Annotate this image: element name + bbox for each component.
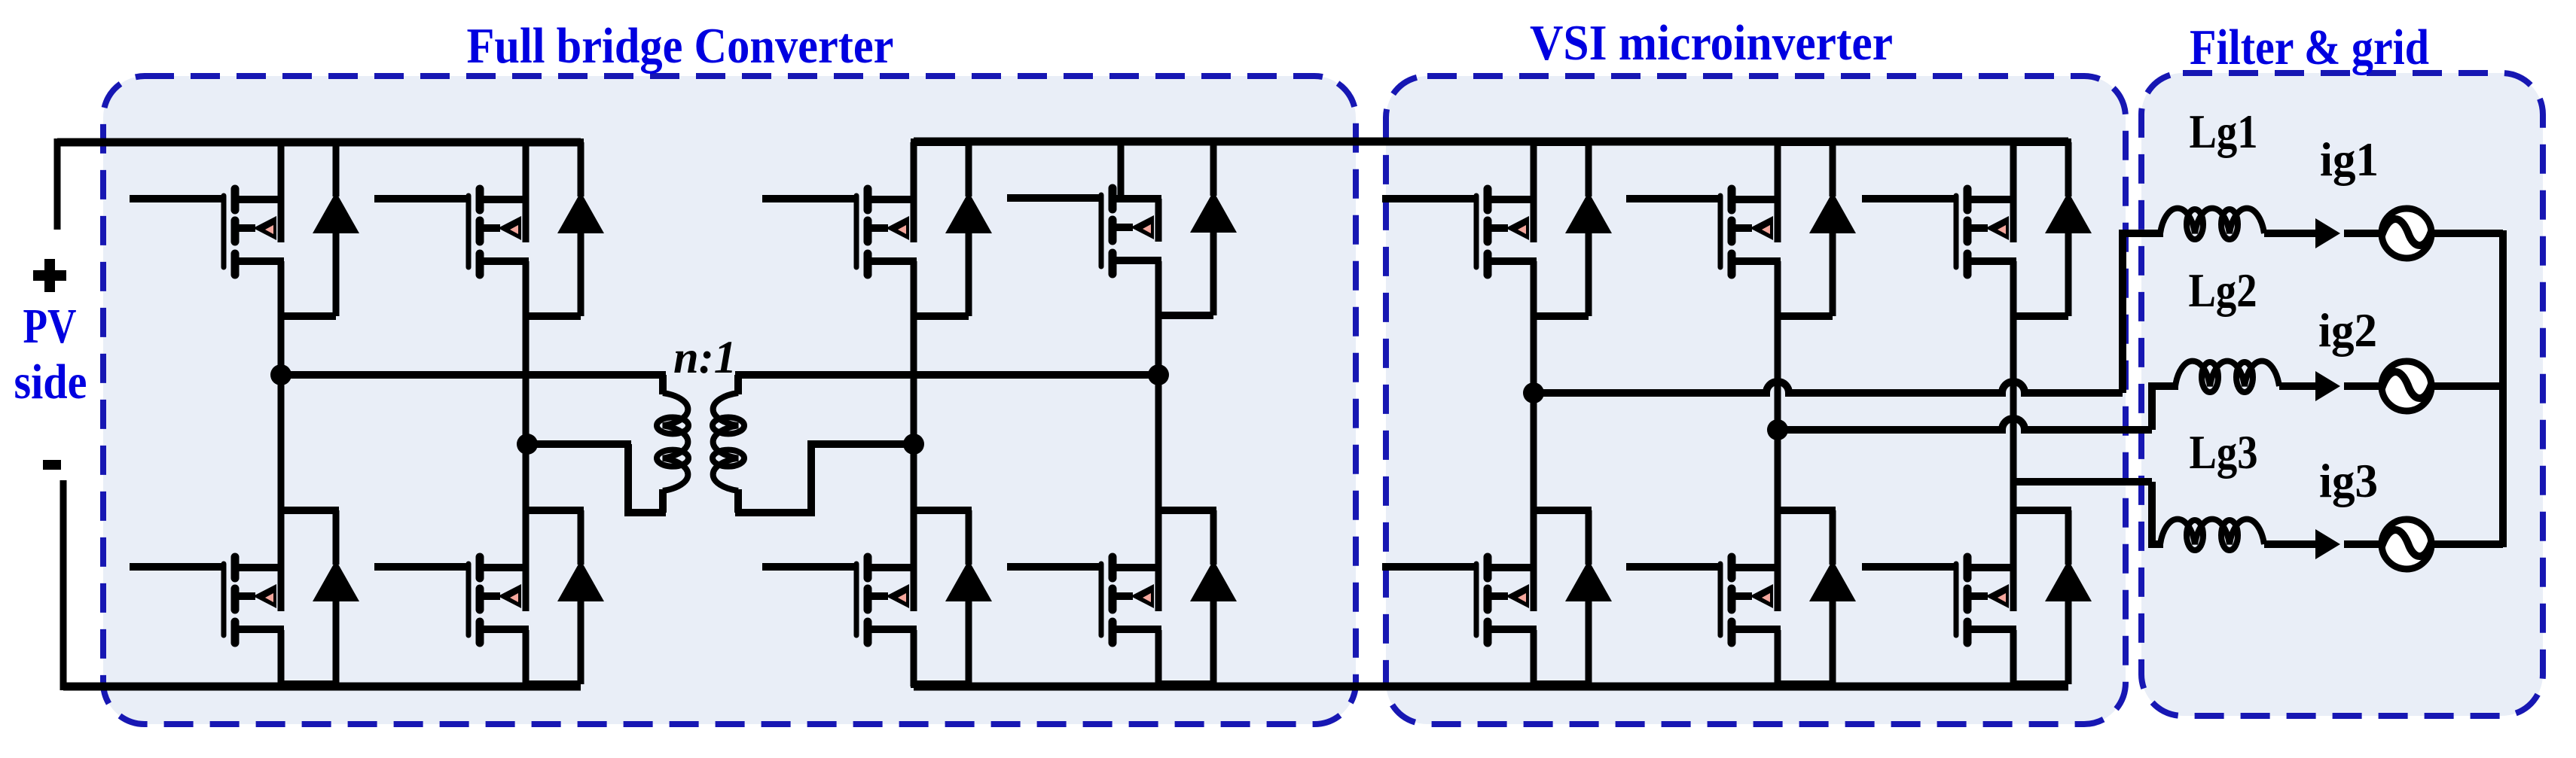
svg-text:VSI microinverter: VSI microinverter [1530,15,1893,71]
svg-text:ig2: ig2 [2318,303,2377,357]
svg-text:Filter & grid: Filter & grid [2190,20,2429,75]
svg-text:ig3: ig3 [2319,454,2378,507]
svg-text:side: side [14,355,87,409]
svg-text:Lg1: Lg1 [2190,105,2258,158]
svg-text:Lg2: Lg2 [2189,263,2257,317]
svg-text:ig1: ig1 [2320,132,2379,186]
svg-text:n:1: n:1 [673,333,737,383]
svg-text:Lg3: Lg3 [2190,425,2258,479]
svg-text:Full bridge Converter: Full bridge Converter [467,18,894,74]
svg-text:PV: PV [23,299,77,354]
